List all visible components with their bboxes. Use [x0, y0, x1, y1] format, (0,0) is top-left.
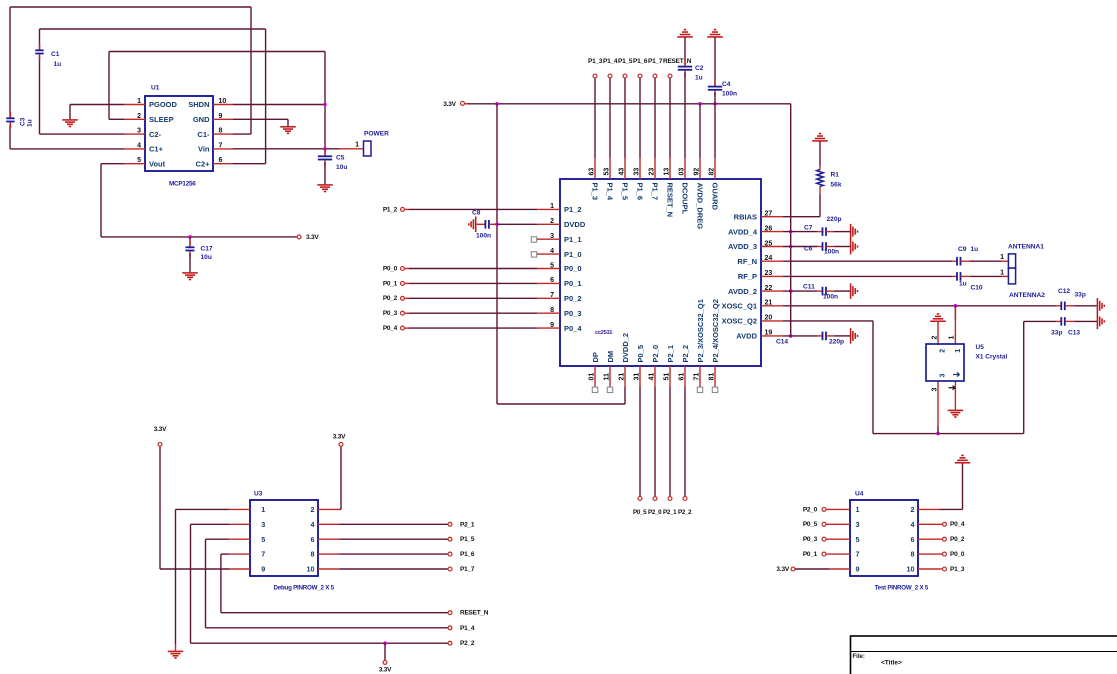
svg-text:5: 5 [856, 535, 860, 544]
svg-text:P1_4: P1_4 [603, 58, 618, 65]
svg-text:P1_5: P1_5 [620, 183, 629, 201]
svg-text:33p: 33p [1051, 330, 1062, 337]
svg-text:1u: 1u [695, 75, 703, 82]
svg-text:8: 8 [219, 128, 223, 135]
svg-text:220p: 220p [827, 216, 842, 223]
svg-text:U4: U4 [855, 491, 864, 498]
svg-text:U1: U1 [151, 85, 160, 92]
svg-text:P1_3: P1_3 [588, 58, 603, 65]
svg-text:P0_3: P0_3 [564, 309, 582, 318]
svg-text:P0_0: P0_0 [383, 265, 398, 272]
svg-text:3: 3 [932, 388, 939, 392]
svg-text:100n: 100n [824, 249, 839, 256]
svg-text:10: 10 [219, 98, 227, 105]
svg-text:7: 7 [550, 292, 554, 299]
svg-text:P1_3: P1_3 [590, 183, 599, 201]
svg-text:5: 5 [137, 157, 141, 164]
svg-text:P0_2: P0_2 [564, 294, 582, 303]
svg-text:1u: 1u [971, 246, 979, 253]
svg-text:7: 7 [261, 550, 265, 559]
svg-text:AVDD_3: AVDD_3 [728, 242, 757, 251]
svg-text:23: 23 [648, 168, 655, 176]
svg-text:P0_3: P0_3 [383, 310, 398, 317]
svg-text:9: 9 [219, 113, 223, 120]
svg-text:P1_7: P1_7 [460, 566, 475, 573]
svg-text:C4: C4 [722, 81, 731, 88]
svg-text:Vin: Vin [198, 145, 210, 154]
svg-text:2: 2 [550, 218, 554, 225]
svg-text:C3: C3 [20, 117, 27, 126]
svg-text:P2_0: P2_0 [648, 509, 662, 516]
svg-text:9: 9 [261, 565, 265, 574]
svg-text:100n: 100n [722, 91, 737, 98]
svg-text:P2_3/XOSC32_Q1: P2_3/XOSC32_Q1 [696, 299, 705, 362]
svg-text:P2_4/XOSC32_Q2: P2_4/XOSC32_Q2 [711, 299, 720, 362]
svg-text:P2_2: P2_2 [678, 509, 692, 516]
svg-text:P0_0: P0_0 [950, 551, 965, 558]
svg-text:3.3V: 3.3V [379, 667, 392, 674]
svg-text:100n: 100n [823, 293, 838, 300]
svg-text:C5: C5 [336, 155, 345, 162]
svg-text:cc2511: cc2511 [596, 330, 614, 336]
svg-text:P1_4: P1_4 [460, 625, 475, 632]
svg-text:C17: C17 [201, 246, 213, 253]
svg-text:Vout: Vout [149, 159, 166, 168]
svg-text:10: 10 [307, 565, 315, 574]
svg-text:P1_3: P1_3 [950, 566, 965, 573]
svg-text:23: 23 [765, 270, 773, 277]
svg-text:DCOUPL: DCOUPL [680, 183, 689, 215]
svg-text:RF_P: RF_P [738, 272, 757, 281]
svg-text:3: 3 [550, 233, 554, 240]
svg-text:P0_5: P0_5 [636, 345, 645, 363]
svg-text:C8: C8 [472, 210, 481, 217]
svg-text:GUARD: GUARD [710, 183, 719, 211]
svg-text:41: 41 [648, 373, 655, 381]
svg-text:33: 33 [633, 168, 640, 176]
svg-text:P1_5: P1_5 [618, 58, 633, 65]
svg-text:C2+: C2+ [196, 159, 211, 168]
svg-text:P1_6: P1_6 [460, 551, 475, 558]
svg-text:P0_4: P0_4 [950, 521, 965, 528]
svg-text:33p: 33p [1075, 292, 1086, 299]
svg-text:PGOOD: PGOOD [149, 100, 178, 109]
svg-text:3.3V: 3.3V [306, 234, 319, 241]
svg-text:Debug PINROW_2 X 5: Debug PINROW_2 X 5 [274, 584, 335, 591]
svg-text:1: 1 [261, 505, 265, 514]
svg-text:C1+: C1+ [149, 145, 164, 154]
svg-text:1: 1 [137, 98, 141, 105]
svg-text:100n: 100n [476, 233, 491, 240]
svg-text:P2_1: P2_1 [666, 345, 675, 363]
svg-text:56k: 56k [831, 182, 842, 189]
svg-text:DM: DM [606, 351, 615, 363]
svg-text:<Title>: <Title> [881, 660, 902, 667]
svg-text:RESET_N: RESET_N [665, 183, 674, 218]
svg-text:1: 1 [948, 336, 955, 340]
svg-text:POWER: POWER [364, 131, 389, 138]
svg-text:1: 1 [355, 141, 359, 148]
svg-text:92: 92 [693, 168, 700, 176]
svg-text:P2_0: P2_0 [803, 506, 818, 513]
svg-text:P0_3: P0_3 [803, 536, 818, 543]
svg-text:21: 21 [765, 300, 773, 307]
svg-text:2: 2 [311, 505, 315, 514]
svg-text:9: 9 [856, 565, 860, 574]
svg-text:22: 22 [765, 285, 773, 292]
svg-text:P2_1: P2_1 [460, 521, 475, 528]
svg-text:5: 5 [261, 535, 265, 544]
svg-text:XOSC_Q1: XOSC_Q1 [722, 302, 757, 311]
svg-text:C13: C13 [1068, 330, 1080, 337]
svg-text:2: 2 [137, 113, 141, 120]
svg-text:21: 21 [618, 373, 625, 381]
svg-text:6: 6 [550, 277, 554, 284]
svg-text:P0_1: P0_1 [383, 280, 398, 287]
svg-text:RESET_N: RESET_N [663, 58, 692, 65]
svg-text:25: 25 [765, 240, 773, 247]
svg-text:6: 6 [911, 535, 915, 544]
svg-text:3.3V: 3.3V [776, 566, 789, 573]
svg-text:P1_6: P1_6 [635, 183, 644, 201]
svg-text:71: 71 [693, 373, 700, 381]
svg-text:DVDD_2: DVDD_2 [621, 333, 630, 363]
svg-text:4: 4 [911, 520, 915, 529]
svg-text:20: 20 [765, 315, 773, 322]
svg-text:7: 7 [856, 550, 860, 559]
svg-text:6: 6 [311, 535, 315, 544]
svg-text:DP: DP [591, 352, 600, 362]
svg-text:MCP1256: MCP1256 [169, 180, 196, 187]
svg-text:DVDD: DVDD [564, 220, 586, 229]
svg-text:8: 8 [311, 550, 315, 559]
svg-text:R1: R1 [831, 172, 840, 179]
svg-text:2: 2 [932, 336, 939, 340]
svg-text:P2_2: P2_2 [681, 345, 690, 363]
svg-text:Test PINROW_2 X 5: Test PINROW_2 X 5 [875, 584, 929, 591]
svg-text:P1_2: P1_2 [383, 206, 398, 213]
svg-text:P0_2: P0_2 [383, 295, 398, 302]
svg-text:C10: C10 [971, 284, 983, 291]
svg-text:P1_1: P1_1 [564, 235, 582, 244]
svg-text:01: 01 [588, 373, 595, 381]
svg-text:AVDD_DREG: AVDD_DREG [695, 183, 704, 230]
svg-text:ANTENNA2: ANTENNA2 [1009, 292, 1045, 299]
svg-text:AVDD_4: AVDD_4 [728, 227, 758, 236]
svg-text:10u: 10u [201, 254, 212, 261]
svg-text:3.3V: 3.3V [443, 101, 456, 108]
svg-text:RF_N: RF_N [737, 257, 757, 266]
svg-text:P0_1: P0_1 [564, 279, 582, 288]
svg-text:P1_7: P1_7 [650, 183, 659, 201]
svg-text:11: 11 [603, 373, 610, 381]
svg-text:C7: C7 [804, 225, 813, 232]
svg-text:SLEEP: SLEEP [149, 115, 174, 124]
svg-text:C2-: C2- [149, 130, 162, 139]
svg-text:C1: C1 [51, 51, 60, 58]
svg-text:8: 8 [911, 550, 915, 559]
svg-text:4: 4 [311, 520, 315, 529]
svg-text:3.3V: 3.3V [154, 426, 167, 433]
svg-text:3.3V: 3.3V [333, 434, 346, 441]
svg-text:1: 1 [1000, 254, 1004, 261]
svg-text:24: 24 [765, 255, 773, 262]
svg-text:220p: 220p [829, 339, 844, 346]
svg-text:9: 9 [550, 322, 554, 329]
svg-text:1u: 1u [54, 61, 62, 68]
svg-text:3: 3 [137, 128, 141, 135]
svg-text:2: 2 [940, 349, 947, 353]
svg-text:P0_5: P0_5 [633, 509, 647, 516]
svg-text:C12: C12 [1058, 288, 1070, 295]
svg-text:X1 Crystal: X1 Crystal [976, 354, 1008, 361]
svg-text:C14: C14 [776, 339, 788, 346]
svg-text:P0_1: P0_1 [803, 551, 818, 558]
svg-text:U5: U5 [976, 344, 985, 351]
svg-text:13: 13 [663, 168, 670, 176]
svg-text:53: 53 [603, 168, 610, 176]
svg-text:GND: GND [193, 115, 210, 124]
svg-text:1u: 1u [959, 280, 967, 287]
svg-text:1: 1 [550, 203, 554, 210]
svg-text:U3: U3 [254, 491, 263, 498]
svg-text:5: 5 [550, 262, 554, 269]
svg-text:P0_4: P0_4 [564, 324, 582, 333]
svg-text:26: 26 [765, 225, 773, 232]
svg-text:1u: 1u [27, 119, 34, 127]
svg-text:81: 81 [708, 373, 715, 381]
svg-text:P1_5: P1_5 [460, 536, 475, 543]
svg-text:4: 4 [550, 248, 554, 255]
svg-text:P2_0: P2_0 [651, 345, 660, 363]
svg-text:P2_2: P2_2 [460, 640, 475, 647]
svg-text:6: 6 [219, 157, 223, 164]
svg-text:10: 10 [907, 565, 915, 574]
svg-text:1: 1 [856, 505, 860, 514]
svg-text:P1_6: P1_6 [633, 58, 648, 65]
svg-text:3: 3 [856, 520, 860, 529]
svg-text:C2: C2 [695, 65, 704, 72]
svg-text:2: 2 [911, 505, 915, 514]
svg-text:19: 19 [765, 330, 773, 337]
svg-text:C11: C11 [803, 284, 815, 291]
svg-text:31: 31 [633, 373, 640, 381]
svg-text:1: 1 [1000, 269, 1004, 276]
svg-text:File:: File: [853, 654, 865, 660]
svg-text:C6: C6 [804, 246, 813, 253]
svg-text:P2_1: P2_1 [663, 509, 677, 516]
svg-text:P0_5: P0_5 [803, 521, 818, 528]
svg-text:43: 43 [618, 168, 625, 176]
svg-text:61: 61 [678, 373, 685, 381]
svg-text:3: 3 [261, 520, 265, 529]
svg-text:82: 82 [708, 168, 715, 176]
svg-text:8: 8 [550, 307, 554, 314]
svg-text:C9: C9 [958, 246, 967, 253]
svg-text:C1-: C1- [197, 130, 210, 139]
svg-text:ANTENNA1: ANTENNA1 [1008, 243, 1044, 250]
svg-text:51: 51 [663, 373, 670, 381]
svg-text:10u: 10u [336, 164, 347, 171]
svg-text:P0_2: P0_2 [950, 536, 965, 543]
svg-text:P0_4: P0_4 [383, 325, 398, 332]
svg-text:1: 1 [955, 349, 962, 353]
svg-text:4: 4 [137, 142, 141, 149]
svg-text:P1_4: P1_4 [605, 183, 614, 201]
svg-text:AVDD_2: AVDD_2 [728, 287, 757, 296]
svg-text:03: 03 [678, 168, 685, 176]
svg-text:P1_2: P1_2 [564, 205, 582, 214]
svg-text:AVDD: AVDD [736, 332, 757, 341]
svg-text:RESET_N: RESET_N [460, 610, 489, 617]
svg-text:P1_7: P1_7 [648, 58, 663, 65]
svg-text:3: 3 [940, 374, 947, 378]
svg-text:SHDN: SHDN [188, 100, 209, 109]
svg-text:RBIAS: RBIAS [734, 212, 757, 221]
svg-text:XOSC_Q2: XOSC_Q2 [722, 317, 757, 326]
svg-text:63: 63 [588, 168, 595, 176]
svg-text:P1_0: P1_0 [564, 250, 582, 259]
svg-text:7: 7 [219, 142, 223, 149]
svg-text:P0_0: P0_0 [564, 264, 582, 273]
svg-text:27: 27 [765, 211, 773, 218]
